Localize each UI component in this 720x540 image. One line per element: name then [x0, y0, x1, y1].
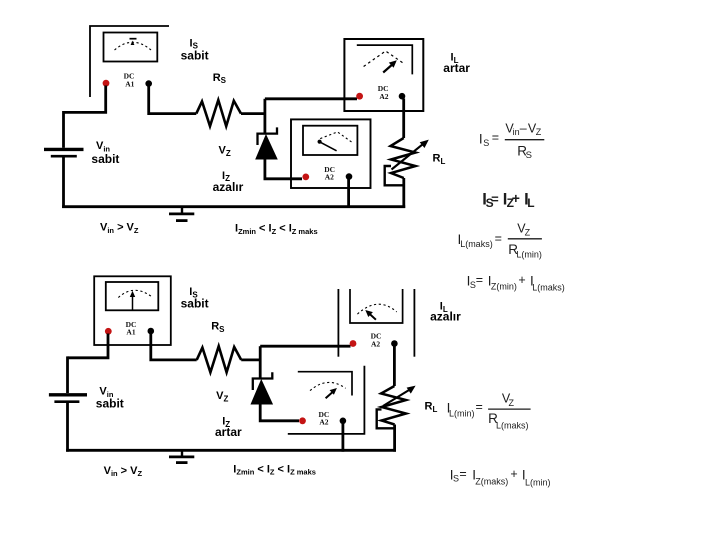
svg-text:RS: RS — [213, 72, 227, 85]
svg-text:Z: Z — [536, 127, 542, 137]
svg-text:A2: A2 — [319, 418, 328, 427]
svg-text:VZ: VZ — [219, 145, 231, 158]
RL (top) return wire — [385, 166, 404, 185]
svg-text:L: L — [527, 196, 534, 210]
voltmeter M3 face — [303, 126, 357, 155]
svg-text:IZmin < IZ < IZ maks: IZmin < IZ < IZ maks — [233, 463, 316, 476]
svg-text:Z: Z — [525, 228, 531, 238]
svg-text:VZ: VZ — [216, 390, 228, 403]
svg-text:S: S — [526, 150, 532, 161]
battery B1 (Vin) top lead — [62, 111, 65, 148]
zener diode D2 cathode bar — [253, 372, 272, 390]
voltmeter M6 needle (up-right, increasing) — [326, 391, 334, 398]
ammeter M5 scale arc — [357, 304, 396, 314]
wire zener anode to voltmeter M3 red terminal — [265, 158, 302, 179]
wire RL (top) to bottom rail — [402, 178, 405, 208]
variable resistor RL (top) arrow — [392, 143, 425, 170]
svg-text:sabit: sabit — [91, 152, 119, 166]
terminal black (M1) — [145, 80, 152, 87]
battery B2 bottom lead — [66, 403, 69, 452]
svg-text:L(min): L(min) — [449, 409, 475, 419]
resistor RS (bottom) — [197, 346, 242, 372]
svg-text:I: I — [479, 131, 483, 146]
svg-text:Z(maks): Z(maks) — [475, 477, 508, 487]
wire M4 black terminal to resistor — [151, 334, 197, 360]
terminal black (M2) — [399, 93, 406, 100]
variable resistor RL (top) zigzag — [391, 138, 416, 178]
wire node B to ammeter M5 red terminal — [260, 345, 350, 348]
node B vertical (junction above zener, bottom) — [259, 346, 262, 379]
svg-text:RS: RS — [211, 321, 225, 334]
variable resistor RL (bottom) arrow — [383, 389, 412, 407]
svg-text:–: – — [520, 122, 527, 136]
svg-text:Z: Z — [509, 398, 515, 408]
ammeter M2 needle (up-right, increasing) — [383, 63, 394, 73]
svg-text:Vin > VZ: Vin > VZ — [104, 465, 143, 478]
ammeter M4 (DC A1 bottom) enclosure — [94, 276, 171, 345]
bottom rail (top circuit) — [62, 205, 405, 208]
svg-text:Z(min): Z(min) — [491, 282, 517, 292]
terminal black (M4) — [148, 328, 155, 335]
variable resistor RL (bottom) zigzag — [381, 386, 406, 425]
terminal red (M5) — [350, 340, 357, 347]
terminal black (M3) — [346, 173, 353, 180]
svg-text:artar: artar — [443, 61, 470, 75]
svg-text:=: = — [491, 192, 499, 207]
battery B1 bottom lead — [62, 157, 65, 208]
ammeter M1 face — [104, 33, 158, 62]
battery B2 short plate — [54, 400, 79, 403]
ammeter M5 (DC A2 bottom right) enclosure sides — [337, 289, 339, 357]
wire zener anode to voltmeter M6 red terminal — [260, 403, 299, 421]
ammeter M2 (DC A2 top right) enclosure — [344, 39, 423, 111]
battery B2 long plate — [49, 393, 87, 396]
battery B1 long plate — [44, 148, 84, 151]
svg-text:in: in — [513, 127, 520, 137]
svg-text:A2: A2 — [371, 340, 380, 349]
voltmeter M3 needle (points down-right, decreasing) — [320, 142, 336, 151]
svg-text:azalır: azalır — [213, 180, 244, 194]
voltmeter M6 (DC A2 middle bottom) enclosure (right+bottom) — [288, 366, 365, 434]
ammeter M5 face (U shape) — [350, 289, 403, 323]
terminal red (M1) — [103, 80, 110, 87]
ground (bottom circuit) — [181, 450, 183, 457]
svg-text:L(maks): L(maks) — [496, 421, 529, 431]
svg-text:sabit: sabit — [181, 296, 209, 310]
terminal red (M2) — [356, 93, 363, 100]
battery B1 short plate — [51, 155, 77, 158]
wire RL (bottom) to bottom rail — [393, 425, 396, 452]
svg-text:=: = — [476, 400, 483, 414]
wire M6 black terminal to bottom rail — [341, 424, 344, 452]
svg-text:+: + — [510, 467, 517, 481]
svg-text:A2: A2 — [325, 172, 334, 181]
voltmeter M6 face (top+right) — [298, 372, 352, 396]
svg-text:S: S — [453, 474, 459, 484]
terminal red (M3) — [302, 174, 309, 181]
wire resistor to node A — [241, 112, 265, 115]
svg-text:sabit: sabit — [181, 48, 209, 62]
svg-text:Vin > VZ: Vin > VZ — [100, 222, 139, 235]
terminal red (M4) — [105, 328, 112, 335]
svg-text:=: = — [492, 131, 499, 145]
ammeter M1 scale arc — [115, 42, 152, 50]
svg-text:L(maks): L(maks) — [460, 239, 493, 249]
zener diode D1 cathode bar — [258, 127, 278, 145]
ammeter M2 face (open box) — [357, 45, 413, 74]
svg-text:sabit: sabit — [96, 397, 124, 411]
terminal red (M6) — [299, 417, 306, 424]
svg-text:A1: A1 — [126, 328, 135, 337]
ammeter M1 (DC A1 top) enclosure — [90, 26, 169, 97]
ammeter M4 scale arc — [118, 290, 151, 297]
zener diode D1 anode triangle — [256, 136, 276, 159]
svg-text:L(maks): L(maks) — [532, 282, 565, 292]
svg-text:L(min): L(min) — [525, 477, 551, 487]
svg-text:A1: A1 — [125, 79, 134, 88]
ammeter M2 scale arc — [364, 51, 405, 67]
wire M1 black terminal to resistor — [149, 86, 197, 114]
svg-text:A2: A2 — [379, 92, 388, 101]
svg-text:RL: RL — [433, 153, 446, 166]
wire M1 red terminal to battery top — [64, 86, 106, 113]
svg-text:+: + — [512, 190, 520, 206]
terminal black (M5) — [391, 340, 398, 347]
wire M5 black terminal down to RL — [393, 346, 396, 386]
resistor RS (top) — [196, 100, 241, 126]
wire node A to ammeter M2 red terminal — [265, 97, 357, 100]
ammeter M4 needle (straight up) — [132, 295, 134, 311]
ammeter M5 needle (up-left, decreasing) — [368, 313, 376, 320]
wire M3 black terminal to bottom rail — [347, 179, 350, 208]
zener diode D2 anode triangle — [252, 381, 272, 404]
voltmeter M6 scale arc — [310, 382, 346, 390]
wire M2 black terminal down to RL — [402, 99, 405, 139]
svg-text:=: = — [459, 467, 466, 481]
svg-text:=: = — [476, 273, 483, 287]
svg-text:IZmin < IZ < IZ maks: IZmin < IZ < IZ maks — [235, 223, 318, 236]
RL (bottom) return wire — [377, 409, 395, 428]
svg-text:artar: artar — [215, 425, 242, 439]
voltmeter M3 scale arc — [320, 132, 352, 143]
svg-text:RL: RL — [425, 401, 438, 414]
svg-text:=: = — [495, 232, 502, 246]
wire M4 red terminal to battery top — [68, 334, 109, 358]
terminal black (M6) — [340, 418, 347, 425]
ground (top circuit) — [181, 207, 183, 214]
ammeter M1 needle marker — [131, 41, 135, 45]
wire resistor to node B — [241, 358, 260, 361]
svg-text:S: S — [483, 138, 489, 148]
voltmeter M3 pivot dot — [318, 140, 322, 144]
voltmeter M3 (DC A2 middle top) enclosure — [291, 119, 371, 188]
svg-text:azalır: azalır — [430, 310, 461, 324]
svg-text:+: + — [518, 273, 525, 287]
ammeter M4 face — [106, 282, 159, 310]
bottom rail (bottom circuit) — [66, 449, 396, 452]
battery B2 (Vin bottom) top lead — [66, 356, 69, 393]
node A vertical (junction above zener, top) — [263, 99, 266, 135]
svg-text:L(min): L(min) — [516, 250, 542, 260]
